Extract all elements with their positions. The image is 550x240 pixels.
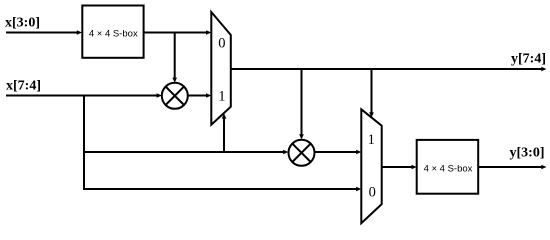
node arrow into XOR X1 top	[172, 78, 177, 83]
node arrow into mux M1 pin 1	[206, 93, 211, 98]
wire branch down from x[7:4]	[83, 96, 85, 190]
svg-text:y[3:0]: y[3:0]	[510, 146, 545, 161]
node arrow into mux M2 pin 0	[356, 187, 361, 192]
wire S-box U1 output to mux M1 input 0	[144, 32, 207, 34]
svg-text:0: 0	[369, 185, 376, 201]
mux M2	[361, 109, 381, 223]
wire mux M1 select up	[223, 118, 225, 153]
node arrow into mux M2 select	[369, 112, 374, 117]
node arrow into mux M1 select	[222, 113, 227, 118]
wire y[3:0] output	[478, 166, 544, 168]
svg-text:4 × 4 S-box: 4 × 4 S-box	[424, 163, 473, 174]
wire XOR X1 output to mux M1 input 1	[188, 95, 207, 97]
svg-text:4 × 4 S-box: 4 × 4 S-box	[89, 28, 138, 39]
node arrow into XOR X2 top	[299, 134, 304, 139]
svg-text:1: 1	[218, 89, 225, 105]
svg-text:x[7:4]: x[7:4]	[6, 79, 41, 94]
wire mux M2 output to S-box U2	[382, 166, 413, 168]
svg-text:x[3:0]: x[3:0]	[5, 16, 40, 31]
wire branch down to XOR X2 top	[301, 69, 303, 136]
node arrow into XOR X2 left	[283, 150, 288, 155]
node arrow output y[3:0]	[541, 165, 546, 170]
node arrow into mux M1 pin 0	[206, 30, 211, 35]
wire x[7:4] input	[6, 95, 158, 97]
node arrow into S-box U2	[412, 165, 417, 170]
wire XOR X2 output to mux M2 input 1	[315, 151, 358, 153]
wire mux M2 select down	[371, 69, 373, 114]
wire bottom row to mux M2 input 0	[83, 188, 357, 190]
mux M1	[211, 12, 231, 125]
node arrow into mux M2 pin 1	[356, 150, 361, 155]
wire junction branch down to XOR X1	[174, 33, 176, 79]
svg-text:1: 1	[368, 132, 375, 148]
wire x[3:0] input	[6, 32, 78, 34]
wire lower row to XOR X2	[84, 151, 284, 153]
S-box U2	[417, 140, 479, 194]
node arrow into XOR X1 left	[157, 93, 162, 98]
XOR gate X1	[162, 83, 188, 109]
S-box U1	[82, 6, 143, 58]
wire y[7:4] from mux M1 output	[231, 68, 544, 70]
svg-text:0: 0	[218, 36, 225, 52]
node arrow output y[7:4]	[541, 67, 546, 72]
svg-text:y[7:4]: y[7:4]	[511, 52, 546, 67]
XOR gate X2	[289, 140, 315, 166]
node arrow into S-box U1	[77, 30, 82, 35]
